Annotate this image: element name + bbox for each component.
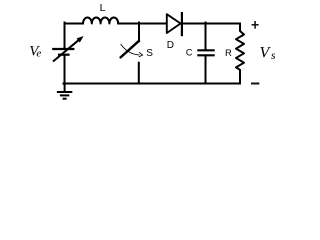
wire switch bottom stub — [138, 63, 140, 84]
resistor R — [236, 25, 244, 83]
svg-text:R: R — [225, 48, 232, 59]
diode triangle — [167, 14, 181, 33]
source Ve arrow shaft — [53, 40, 79, 62]
capacitor C plates — [197, 50, 214, 55]
wire top-left segment — [65, 23, 84, 25]
wire inductor to diode — [118, 23, 167, 25]
svg-text:D: D — [167, 40, 174, 51]
wire capacitor bottom stub — [205, 56, 207, 83]
diode D — [167, 12, 182, 36]
switch motion arrow — [121, 44, 140, 55]
svg-text:C: C — [186, 48, 193, 58]
source Ve long plate — [52, 48, 74, 50]
svg-text:V: V — [260, 45, 272, 62]
capacitor plate bottom — [197, 54, 214, 56]
svg-text:S: S — [146, 48, 153, 59]
source Ve short plate — [58, 54, 70, 56]
diode cathode bar — [181, 12, 183, 36]
ground bar 3 — [63, 98, 67, 100]
wire left branch lower — [64, 56, 66, 85]
inductor L — [83, 17, 118, 23]
svg-text:L: L — [100, 2, 106, 14]
source Ve arrowhead — [77, 37, 83, 43]
minus sign — [251, 83, 259, 85]
ground bar 1 — [57, 91, 72, 93]
ground bar 2 — [60, 94, 69, 96]
source Ve (variable battery) — [52, 37, 83, 62]
plus sign — [252, 21, 259, 29]
wire switch top stub — [138, 23, 140, 42]
switch arrowhead — [139, 52, 143, 57]
wire left branch upper — [64, 23, 66, 49]
switch blade — [121, 41, 139, 58]
wire capacitor top stub — [205, 23, 207, 50]
wire diode to top-right corner — [183, 23, 240, 25]
wire bottom — [64, 83, 241, 85]
ground stem — [64, 85, 66, 92]
svg-text:s: s — [271, 50, 276, 62]
svg-text:e: e — [36, 48, 41, 60]
switch S — [121, 41, 143, 58]
ground — [57, 85, 72, 99]
capacitor plate top — [197, 49, 214, 51]
